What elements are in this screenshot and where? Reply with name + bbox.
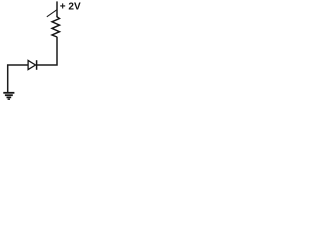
wire resistor to corner and left to diode cathode (37, 37, 57, 65)
wire anode to left corner down to ground (8, 65, 29, 92)
supply terminal slash (47, 10, 57, 17)
resistor R1 (52, 16, 60, 37)
svg-text:+ 2V: + 2V (60, 2, 81, 13)
wire supply lead (56, 1, 58, 16)
ground bar 3 (7, 96, 12, 98)
ground bar 1 (3, 92, 14, 94)
diode D1 cathode bar (36, 60, 38, 70)
ground bar 2 (5, 94, 13, 96)
ground bar 4 (8, 98, 10, 100)
diode D1 triangle (28, 60, 35, 69)
